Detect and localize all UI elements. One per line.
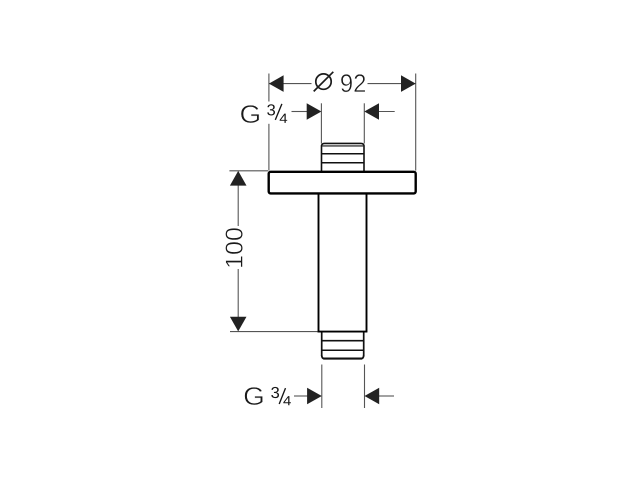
dimension G3/4 bottom arrow right <box>379 395 394 397</box>
dimension Ø92 arrowhead right <box>401 75 416 92</box>
dimension Ø92 dimension line <box>269 83 416 85</box>
shower arm bottom threaded stub <box>322 333 364 359</box>
dimension 100 arrowhead up <box>230 171 247 186</box>
dimension Ø92 extension line right <box>415 74 417 171</box>
shower arm top threaded stub <box>322 143 365 171</box>
dimension G3/4 bottom extension line right <box>364 365 366 409</box>
dimension G3/4 bottom fraction 3/4 <box>271 387 279 398</box>
dimension Ø92 arrowhead left <box>269 75 284 92</box>
dimension G3/4 top arrow right <box>378 111 395 113</box>
dimension G3/4 bottom extension line left <box>321 365 323 409</box>
dimension G3/4 bottom arrow left <box>294 395 308 397</box>
shower arm pipe <box>318 194 368 332</box>
dimension G3/4 top extension line left <box>320 103 322 143</box>
dimension Ø92 value 92 <box>341 74 365 92</box>
dimension G3/4 top arrow left <box>292 111 308 113</box>
dimension Ø92 diameter symbol <box>314 72 334 92</box>
dimension G3/4 bottom label G <box>245 387 263 405</box>
dimension G3/4 top fraction 3/4 <box>264 102 289 124</box>
dimension 100 dimension line <box>237 184 239 318</box>
dimension 100 arrowhead down <box>230 317 247 332</box>
dimension G3/4 top extension line right <box>363 103 365 143</box>
dimension Ø92 extension line left <box>268 74 270 171</box>
shower arm ceiling flange <box>269 172 416 194</box>
dimension 100 extension line top <box>229 170 268 172</box>
dimension 100 value <box>225 228 242 267</box>
dimension G3/4 top label G <box>241 105 259 123</box>
dimension 100 extension line bottom <box>230 331 318 333</box>
